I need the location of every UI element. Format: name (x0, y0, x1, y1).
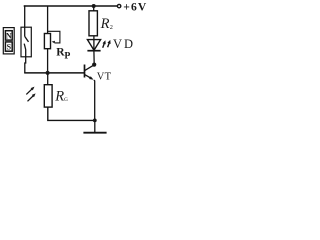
svg-text:G: G (64, 97, 68, 103)
wire middle base rail (24, 72, 84, 74)
svg-text:+6V: +6V (123, 0, 147, 13)
label R2 (100, 16, 113, 32)
svg-text:2: 2 (110, 24, 113, 31)
svg-text:N: N (6, 32, 12, 41)
photoresistor RG (44, 85, 52, 107)
node junction on top rail (92, 4, 96, 8)
resistor R2 (89, 11, 97, 36)
svg-text:R: R (100, 16, 110, 32)
potentiometer RP (44, 31, 60, 48)
label RP (56, 46, 70, 61)
wire reed switch top lead (23, 6, 26, 27)
terminal +6V (117, 4, 120, 7)
transistor VT (85, 65, 95, 121)
wire R2 top lead (93, 6, 95, 11)
svg-text:VT: VT (97, 72, 112, 83)
node junction emitter/ground (93, 119, 97, 123)
label RG (54, 89, 68, 105)
node collector joint (92, 63, 96, 67)
LED emission arrow 2 (107, 40, 110, 47)
LED VD (87, 40, 100, 51)
wire RP bottom lead (47, 49, 49, 73)
wire LED cathode to collector (93, 51, 95, 65)
wire RG top lead (47, 73, 49, 85)
svg-text:R: R (54, 89, 64, 105)
node junction RP/RG/base (46, 71, 50, 75)
wire top rail (24, 5, 118, 7)
svg-text:VD: VD (113, 37, 135, 51)
ground (83, 120, 106, 132)
wire reed bottom to base rail (24, 57, 27, 73)
svg-text:P: P (64, 50, 70, 61)
wire RP top lead (47, 6, 49, 34)
wire RG bottom to ground rail (48, 107, 95, 120)
magnet N S (3, 28, 14, 54)
light arrow 2 (28, 93, 36, 101)
svg-text:S: S (7, 43, 12, 52)
light arrow 1 (26, 87, 34, 95)
LED emission arrow 1 (103, 40, 106, 47)
reed switch (21, 27, 31, 57)
wire R2 bottom lead through LED (93, 36, 95, 50)
